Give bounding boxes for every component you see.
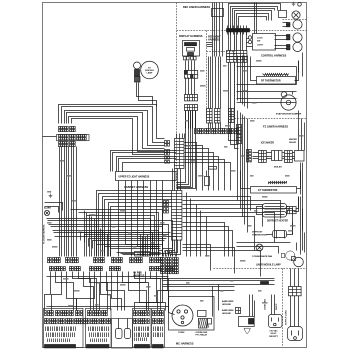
defrost thermostat cylinder: [273, 231, 287, 238]
ref liner nested wires: [229, 4, 281, 29]
condenser fan terminal: [244, 328, 250, 334]
defrost heater right riser: [296, 197, 299, 209]
display board inner box: [187, 48, 195, 52]
fz liner ladder stack 3: [237, 135, 242, 144]
svg-text:BARE WIRE: BARE WIRE: [222, 300, 234, 303]
upper fz connector row 1: [59, 127, 76, 132]
long connector row under ladders: [195, 129, 239, 134]
hv pcb connector row B cluster 5: [150, 267, 163, 271]
interconnect cluster C7 row1: [161, 258, 179, 263]
svg-text:GROUND: GROUND: [222, 304, 231, 306]
ref liner sensor box: [279, 11, 287, 18]
upper fz light harness box: [116, 172, 177, 181]
bulb column drop wires: [298, 61, 300, 73]
right edge connector pair 1: [165, 141, 170, 147]
nested cabinet wires upper: [59, 105, 165, 139]
display board title: [185, 43, 197, 46]
interconnect side pairs: [164, 201, 169, 207]
defrost heater loop wires: [257, 207, 263, 215]
aux door box outline: [152, 309, 165, 348]
section divider vertical supply cord column: [282, 269, 284, 347]
right edge connector pair 2: [165, 150, 170, 156]
wire bundle right column: [237, 56, 239, 101]
defrost heater connector: [287, 207, 297, 214]
ref light harness wires: [207, 42, 213, 44]
door box label bar 3: [135, 345, 150, 348]
wire from left border to connector: [43, 136, 57, 138]
wire bundle fz liner verticals: [237, 111, 239, 201]
middle ladder connector J6: [215, 109, 221, 124]
ice maker hatched connector: [247, 150, 252, 162]
svg-text:LINER MODULE LAMP: LINER MODULE LAMP: [256, 264, 281, 267]
section divider horizontal above REF DOOR lamps: [283, 19, 307, 21]
svg-text:COMP: COMP: [178, 332, 185, 334]
display board outer box: [183, 41, 200, 57]
display wires into long row: [185, 111, 187, 129]
door box row D right 1: [134, 319, 150, 324]
door box row C cluster 2: [56, 311, 74, 316]
supply cord connector block: [289, 287, 302, 296]
cabinet ground symbol: [49, 194, 53, 198]
hv pcb connector row B cluster 6: [166, 267, 175, 271]
svg-text:FZ DOOR HARNESS: FZ DOOR HARNESS: [43, 224, 46, 244]
svg-text:LAMP: LAMP: [147, 72, 153, 75]
hv pcb connector row A cluster 1: [48, 258, 61, 263]
ice maker ladder connector B: [285, 151, 293, 163]
wires ladder bottom to cluster: [163, 240, 173, 257]
ref liner light bulb: [287, 23, 290, 25]
display harness wires to cabinet: [177, 111, 186, 183]
supply cord plug: [288, 327, 303, 341]
wire code label smudges: [47, 60, 304, 307]
interconnect cluster C7 row3: [161, 270, 179, 274]
compressor circle: [172, 305, 193, 326]
door box comb 4: [154, 327, 163, 332]
mid small fuse component: [205, 177, 210, 186]
door box row D right 2: [153, 319, 164, 324]
receptacle face 110VAC: [269, 315, 283, 328]
supply cord wires: [290, 269, 292, 287]
water tube fuse 2: [125, 329, 131, 339]
door box row C cluster 5: [134, 311, 150, 316]
condensate loop circle: [256, 244, 263, 251]
door box comb 2: [89, 327, 109, 332]
mc wires verticals: [168, 291, 170, 313]
svg-text:RF THERMISTOR: RF THERMISTOR: [261, 80, 281, 83]
door box label bar 2: [87, 345, 110, 348]
display connector block third: [185, 105, 198, 111]
svg-text:CONTROL HARNESS: CONTROL HARNESS: [261, 55, 287, 58]
evaporator damper motor circle: [281, 95, 296, 110]
ref liner lamp with X: [292, 11, 300, 19]
section divider vertical left of display harness: [176, 3, 178, 189]
liner module lamp bulb: [281, 251, 294, 260]
svg-text:VALVE: VALVE: [289, 141, 297, 144]
wires ladder right to mc section: [183, 245, 211, 271]
hv pcb connector row A cluster 3: [94, 258, 105, 263]
fz module lamp bulb: [134, 62, 141, 69]
defrost heater element 1: [263, 204, 287, 210]
crossing wires hv to door boxes: [45, 272, 51, 311]
right edge verticals ice to defrost: [300, 163, 302, 195]
door box row D long: [45, 319, 111, 324]
control bundle lower: [229, 63, 239, 141]
dispenser box outline: [112, 319, 133, 349]
defrost heater element 2: [263, 212, 287, 218]
condenser fan wires: [249, 295, 251, 317]
ice maker cylinder: [272, 151, 283, 161]
hv pcb connector row B cluster 2: [70, 267, 81, 271]
fz module lamp socket connector: [135, 77, 141, 83]
fz module lamp stem wires: [137, 83, 153, 105]
fz thermistor leads: [241, 171, 251, 189]
thermal fuse circle top right: [298, 3, 302, 7]
svg-text:ALARM: ALARM: [44, 207, 51, 210]
svg-text:LIGHT: LIGHT: [257, 45, 264, 47]
ref door box outline: [86, 309, 112, 348]
interconnect lower comb: [163, 251, 164, 257]
mc section box: [169, 297, 215, 331]
molex dark bar right: [261, 282, 269, 284]
section divider horizontal under CONTROL HARNESS: [235, 118, 307, 120]
molex bar mid: [209, 167, 217, 170]
ptc relay hatched box: [199, 319, 208, 329]
control connector ladder below bar: [228, 32, 230, 51]
water tube fuse 1: [116, 329, 123, 339]
door box row C cluster 1: [45, 311, 54, 316]
ref door bulb 1: [287, 35, 290, 37]
wires from top edge left: [212, 3, 214, 57]
svg-text:GROUND: GROUND: [222, 313, 231, 315]
ground top right: [292, 2, 296, 6]
display harness wires down: [185, 61, 187, 71]
condenser fan motor box: [239, 317, 255, 327]
ice maker ladder connector A: [259, 151, 267, 163]
fz thermistor box: [251, 187, 297, 194]
svg-text:SW: SW: [257, 41, 260, 43]
svg-text:CABINET HARNESS: CABINET HARNESS: [124, 186, 148, 189]
ref door bulb 2: [287, 45, 290, 47]
fz liner ladder stack 1: [229, 109, 235, 123]
svg-text:REF LINER HARNESS: REF LINER HARNESS: [183, 5, 210, 9]
wires to door bulbs: [275, 35, 288, 37]
interconnect cluster C7 row2: [161, 264, 179, 269]
evaporator damper small circle: [281, 92, 287, 98]
receptacle wires: [271, 295, 273, 315]
fz liner ladder stack 2: [237, 125, 242, 134]
section divider horizontal above machine compartment: [214, 268, 307, 270]
svg-text:LOCK: LOCK: [257, 38, 263, 40]
control connector ladder row2: [227, 57, 247, 63]
svg-text:WATER: WATER: [289, 138, 297, 141]
svg-text:CONDENSATE FAN: CONDENSATE FAN: [252, 255, 273, 258]
water valve drop wires: [298, 111, 300, 151]
cabinet wire bundle descending: [59, 147, 61, 257]
fz module lamp circle: [141, 61, 159, 79]
molex wires: [121, 253, 135, 255]
svg-text:DEFROST: DEFROST: [252, 232, 263, 234]
svg-text:OVERLOAD: OVERLOAD: [196, 331, 208, 334]
right edge vertical wires defrost: [300, 197, 302, 255]
svg-text:SUPPLY CORD: SUPPLY CORD: [286, 310, 288, 325]
door box row C cluster 3: [76, 311, 83, 316]
cabinet feed wires from upper right: [97, 191, 172, 257]
svg-text:COND FAN: COND FAN: [264, 299, 267, 310]
middle wire bundle B1 lower: [208, 123, 210, 129]
svg-text:MOLEX: MOLEX: [137, 254, 145, 256]
rf thermistor resistor squiggle: [263, 74, 289, 76]
facade box outline: [133, 309, 152, 348]
wires ladder A to ladder B: [172, 169, 174, 191]
right edge connector pair 3: [165, 157, 170, 164]
svg-text:UPPER FZ LIGHT HARNESS: UPPER FZ LIGHT HARNESS: [119, 176, 150, 179]
molex box cabinet: [135, 252, 150, 257]
section divider vertical right of display harness: [206, 31, 208, 119]
ptc aux box: [208, 319, 212, 325]
fz thermistor squiggle: [269, 182, 287, 184]
hv pcb connector row A cluster 2: [66, 258, 79, 263]
svg-text:WHITE: WHITE: [276, 303, 278, 310]
middle wire bundle B1: [208, 57, 210, 109]
svg-text:RECEPT: RECEPT: [269, 336, 278, 338]
display connector block lower: [185, 95, 198, 101]
control relay box: [253, 34, 276, 51]
compressor bottom pin: [181, 321, 183, 323]
wires long row down to ladder A: [176, 134, 178, 139]
svg-text:ICE MAKER: ICE MAKER: [261, 142, 274, 145]
svg-text:DISPLAY HARNESS: DISPLAY HARNESS: [179, 35, 203, 38]
wires ladder to right column: [183, 197, 251, 211]
ice maker module box: [295, 151, 305, 162]
door box row C cluster 6: [153, 311, 164, 316]
hv pcb connector row B cluster 4: [110, 267, 121, 271]
hv pcb connector row A cluster 6: [150, 258, 163, 263]
main cabinet interconnect ladder: [172, 191, 182, 241]
hv pcb connector row B cluster 3: [90, 267, 103, 271]
crossing wires horizontals: [47, 276, 169, 278]
svg-text:FZ LINER HARNESS: FZ LINER HARNESS: [263, 125, 288, 129]
display-to-cabinet long wires: [111, 151, 177, 172]
cabinet mid horizontal wires 2: [81, 233, 171, 241]
door box comb 1: [46, 327, 76, 332]
section divider horizontal under REF LIGHT HARNESS: [207, 51, 235, 53]
condenser fan connector small: [236, 308, 241, 314]
svg-text:BARE WIRE: BARE WIRE: [222, 309, 234, 312]
right column long horizontals: [237, 66, 297, 68]
control wires to relay: [247, 38, 249, 40]
mid column horizontals hv band: [183, 223, 225, 257]
svg-text:DEFROST HEATER: DEFROST HEATER: [267, 220, 288, 223]
tall ladder A cabinet interconnect upper: [175, 139, 185, 169]
compressor pins: [177, 310, 180, 313]
door box label bar 1: [45, 345, 76, 348]
rf thermistor leads: [251, 57, 257, 81]
display board pin row: [184, 57, 197, 60]
fz door box outline: [44, 309, 84, 348]
svg-text:60 HZ: 60 HZ: [271, 333, 277, 335]
upper fz connector row 2 wide: [57, 135, 90, 141]
section divider horizontal under REF LINER HARNESS: [177, 30, 307, 32]
section divider vertical control harness left: [234, 31, 236, 119]
display harness wires mid: [185, 78, 187, 95]
evaporator damper hub: [286, 100, 290, 104]
middle ladder connector J5: [207, 109, 213, 124]
svg-text:EVAPORATOR DAMPER: EVAPORATOR DAMPER: [276, 113, 302, 116]
ice maker chain wires: [253, 152, 259, 154]
cabinet vertical bundle mid2: [100, 229, 102, 257]
mc wires top: [163, 278, 275, 280]
rf thermistor box: [257, 77, 296, 85]
control switch circles: [248, 36, 251, 39]
liner module lamp wires: [237, 247, 279, 254]
wire stubs to ref liner bulb: [283, 22, 288, 24]
auger motor circle left: [44, 210, 49, 215]
svg-text:GND: GND: [47, 192, 52, 194]
condensate fan wire: [237, 242, 291, 244]
svg-text:FZ THERMISTOR: FZ THERMISTOR: [258, 189, 278, 192]
ref liner verticals near lamp: [254, 3, 256, 34]
door box row C cluster 4: [88, 311, 108, 316]
door box comb 3: [135, 327, 149, 332]
cabinet long horizontal wires: [47, 219, 151, 257]
hv pcb connector row A cluster 4: [112, 258, 123, 263]
svg-text:110 VAC: 110 VAC: [269, 330, 278, 333]
outer border frame of schematic: [43, 3, 307, 348]
wires mid feed cluster from left: [105, 246, 161, 248]
af sensor box top: [212, 9, 224, 17]
overload box: [198, 311, 207, 317]
hv pcb connector row A cluster 5: [130, 258, 143, 263]
defrost thermostat wires: [267, 234, 273, 236]
connector bar ref liner: [227, 29, 250, 32]
wires ladder A fan east: [185, 143, 197, 191]
upper fz connector row 3: [59, 142, 76, 147]
cabinet vertical bundle right: [140, 235, 142, 257]
svg-text:HARNESS: HARNESS: [208, 39, 220, 42]
svg-text:PTC RELAY: PTC RELAY: [196, 334, 208, 337]
display connector block upper: [185, 71, 198, 79]
svg-text:MOLEX: MOLEX: [274, 167, 282, 169]
hv pcb connector row B cluster 1: [50, 267, 66, 271]
svg-text:MC HARNESS: MC HARNESS: [176, 342, 194, 346]
cabinet vertical bundle mid: [84, 211, 86, 257]
right column vertical drops: [296, 67, 298, 85]
cabinet ground stub wires: [45, 203, 63, 211]
mid column verticals to hv band: [186, 193, 188, 257]
evaporator fan bulb pair: [294, 257, 304, 267]
door box label bar 4: [153, 345, 164, 348]
upper fz box drop wires: [118, 181, 120, 257]
cabinet extra horizontals: [71, 210, 163, 257]
